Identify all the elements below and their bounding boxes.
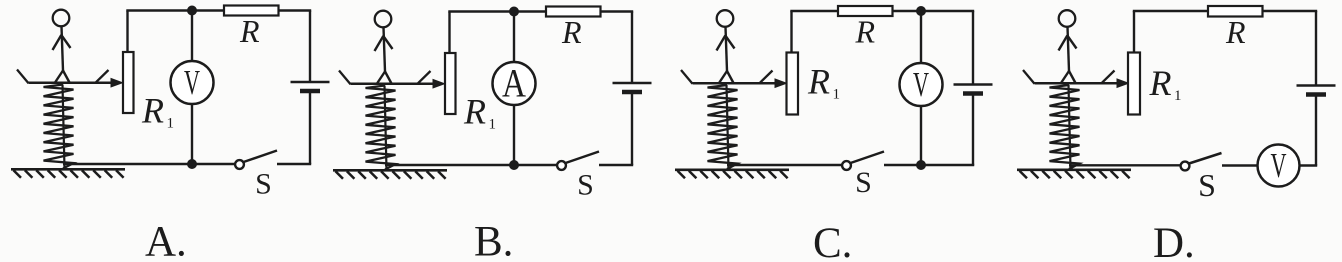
svg-text:1: 1 (489, 117, 497, 133)
svg-text:D.: D. (1153, 220, 1195, 262)
svg-text:C.: C. (813, 220, 852, 262)
svg-text:1: 1 (167, 116, 175, 132)
svg-text:1: 1 (833, 87, 841, 103)
svg-text:R: R (807, 62, 830, 102)
svg-text:B.: B. (474, 219, 513, 262)
svg-text:1: 1 (1174, 88, 1182, 104)
svg-text:S: S (255, 168, 272, 201)
svg-text:A.: A. (145, 219, 187, 262)
svg-text:R: R (141, 91, 164, 131)
svg-text:S: S (1198, 167, 1216, 203)
svg-text:V: V (913, 65, 929, 104)
svg-text:R: R (463, 92, 486, 132)
svg-text:R: R (239, 13, 260, 49)
svg-text:V: V (184, 63, 200, 102)
svg-text:S: S (855, 166, 872, 199)
svg-text:R: R (855, 14, 876, 50)
svg-text:V: V (1271, 146, 1287, 185)
svg-text:A: A (502, 61, 526, 106)
svg-text:S: S (577, 169, 594, 202)
svg-text:R: R (1149, 63, 1172, 103)
svg-text:R: R (561, 14, 582, 50)
svg-text:R: R (1225, 14, 1246, 50)
